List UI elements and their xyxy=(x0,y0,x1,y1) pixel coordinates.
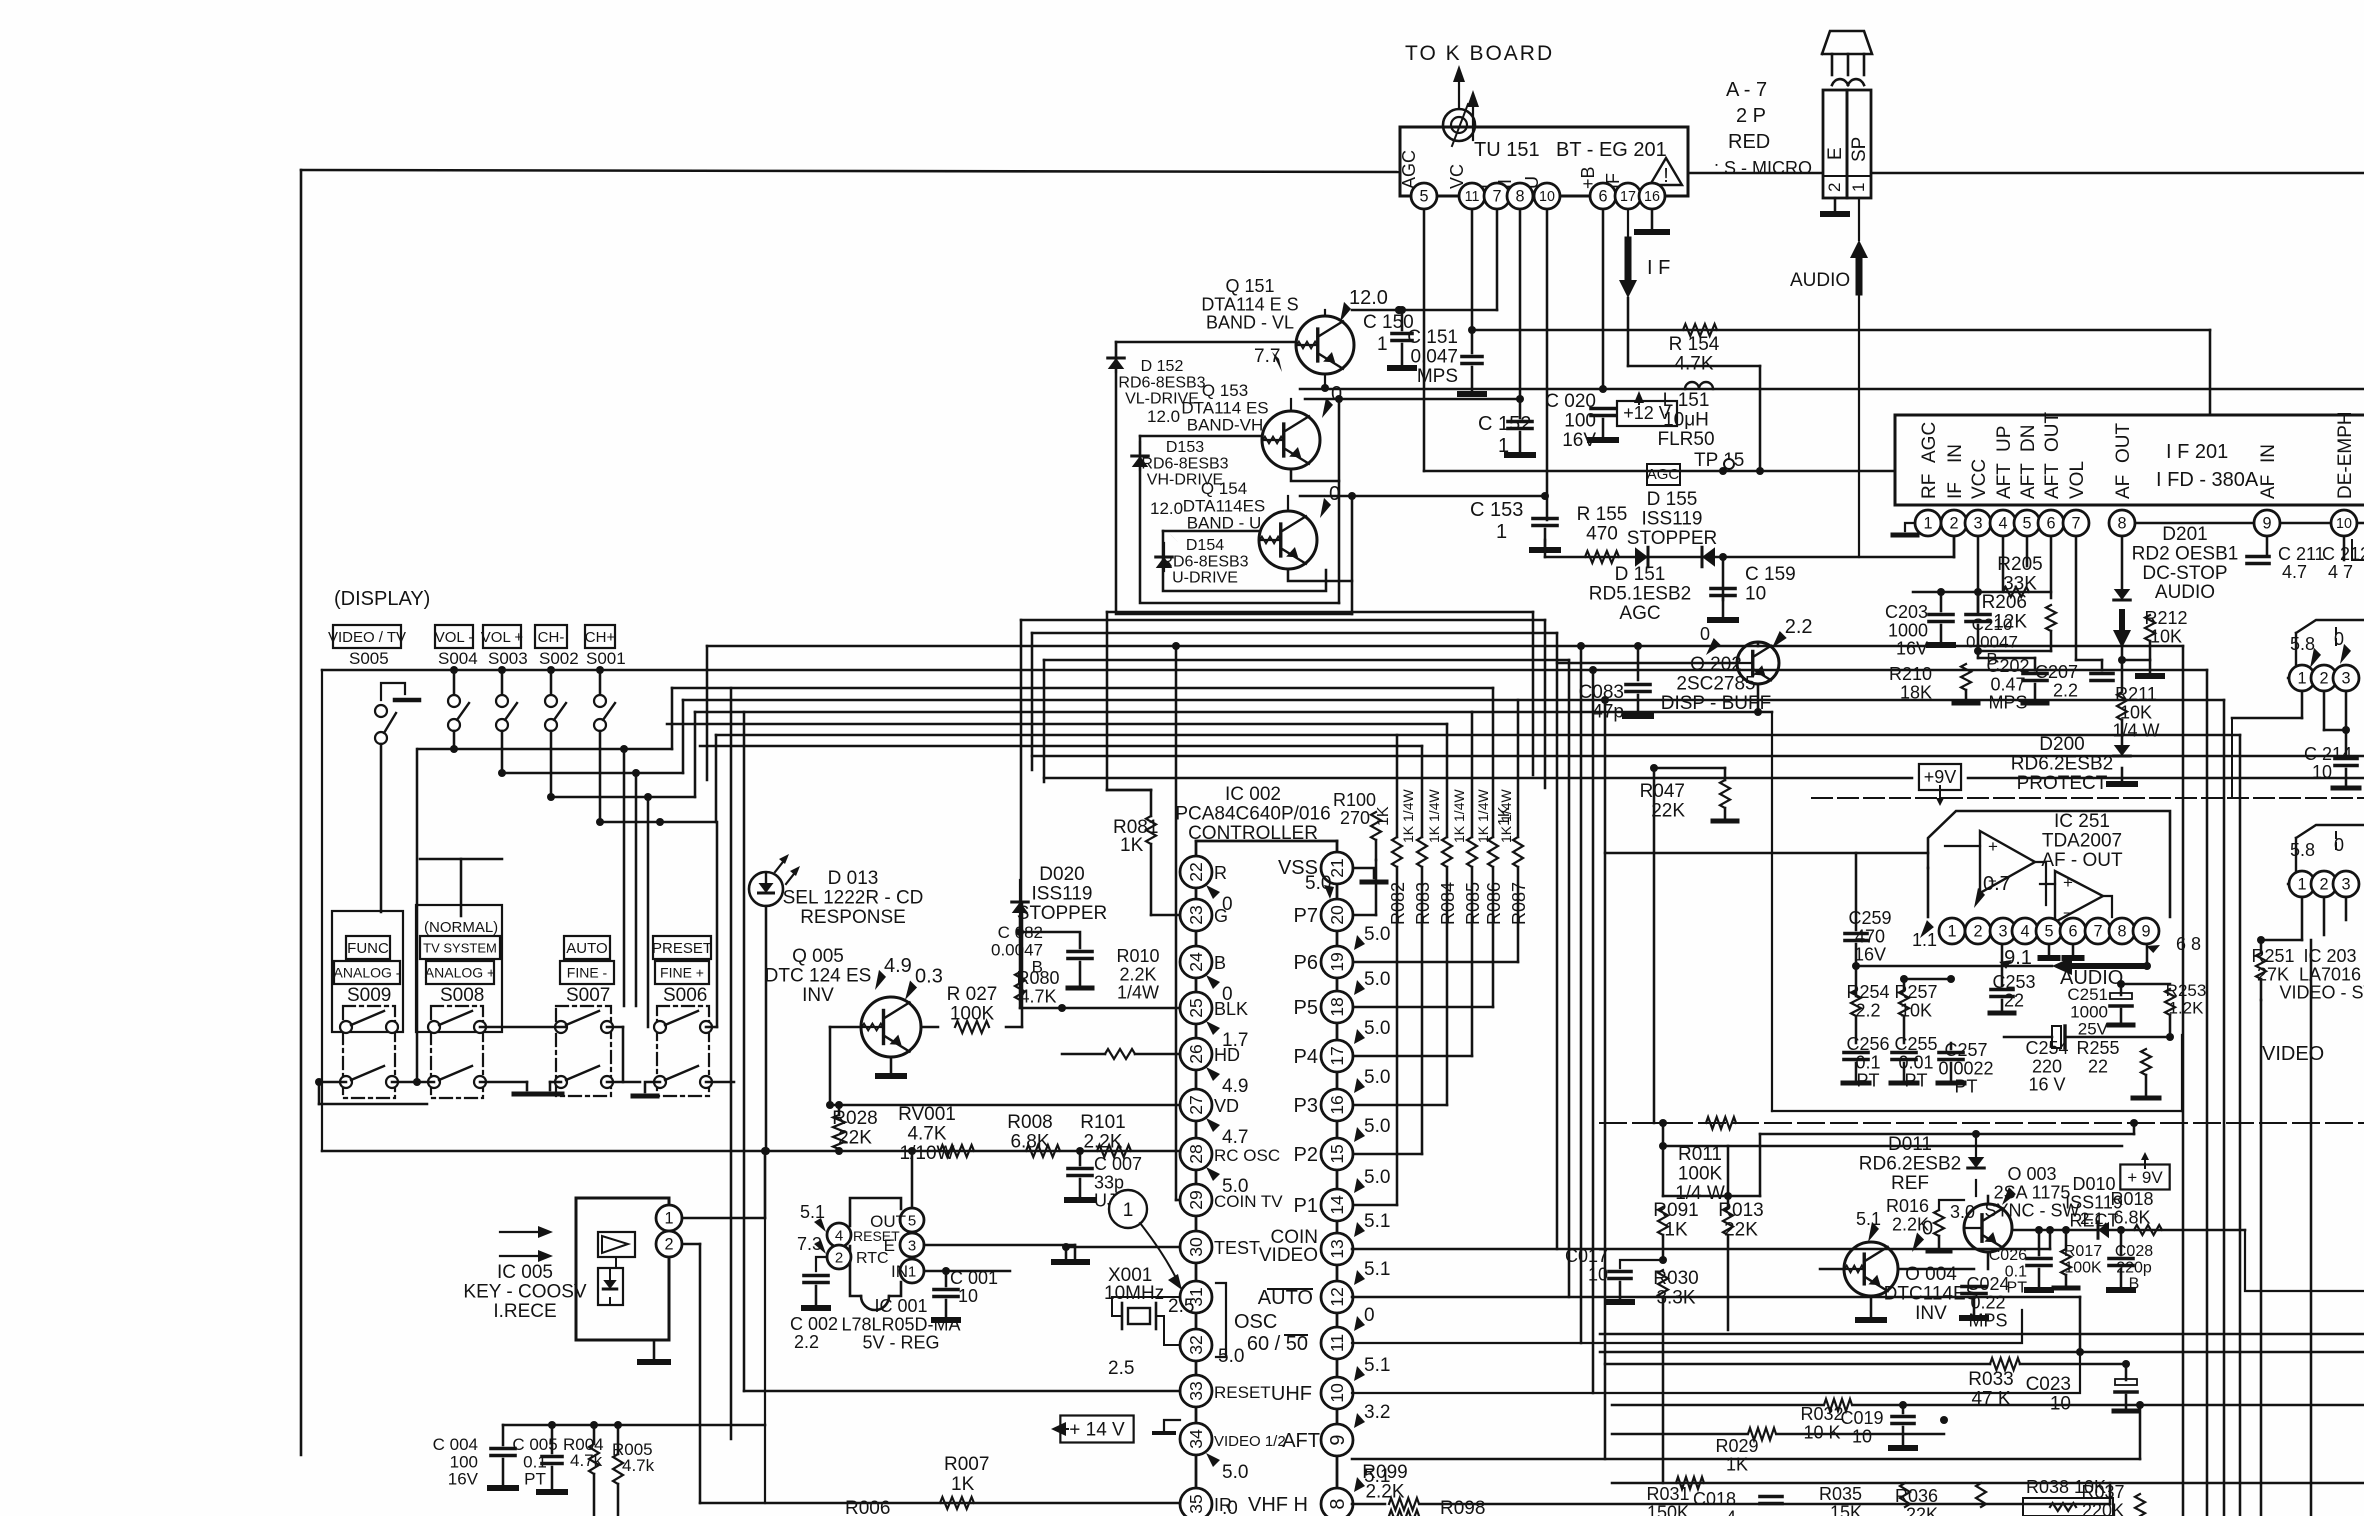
svg-text:4.7K: 4.7K xyxy=(1674,353,1713,374)
svg-text:S001: S001 xyxy=(586,649,626,668)
svg-text:0.7: 0.7 xyxy=(1983,873,2011,895)
svg-text:IC 002: IC 002 xyxy=(1225,784,1281,805)
svg-text:IF: IF xyxy=(1945,482,1966,499)
svg-text:100K: 100K xyxy=(950,1003,995,1024)
svg-text:STOPPER: STOPPER xyxy=(1627,528,1717,549)
svg-text:OUT: OUT xyxy=(2042,412,2063,453)
svg-text:P5: P5 xyxy=(1294,997,1318,1019)
svg-text:C 001: C 001 xyxy=(950,1268,998,1288)
svg-text:B: B xyxy=(1214,953,1226,973)
svg-text:34: 34 xyxy=(1186,1429,1206,1449)
svg-text:CH-: CH- xyxy=(538,629,565,646)
svg-text:TP 15: TP 15 xyxy=(1694,450,1744,471)
svg-text:5.8: 5.8 xyxy=(2290,840,2315,860)
svg-text:2.2K: 2.2K xyxy=(1119,964,1156,984)
svg-text:FLR50: FLR50 xyxy=(1657,429,1714,450)
svg-text:4.7k: 4.7k xyxy=(622,1456,655,1475)
svg-text:60 / 50: 60 / 50 xyxy=(1247,1333,1308,1355)
svg-text:HD: HD xyxy=(1214,1045,1240,1065)
svg-text:6: 6 xyxy=(2046,515,2055,533)
svg-text:1K 1/4W: 1K 1/4W xyxy=(1400,789,1416,843)
svg-text:10K: 10K xyxy=(2150,626,2182,646)
svg-text:0.0022: 0.0022 xyxy=(1938,1058,1993,1078)
svg-text:PRESET: PRESET xyxy=(652,940,712,957)
svg-text:18K: 18K xyxy=(1900,682,1932,702)
svg-text:29: 29 xyxy=(1186,1190,1206,1210)
svg-text:C 007: C 007 xyxy=(1094,1154,1142,1174)
svg-text:1: 1 xyxy=(908,1263,916,1280)
svg-text:18: 18 xyxy=(1327,997,1347,1017)
svg-text:1K: 1K xyxy=(951,1474,975,1495)
svg-text:AUTO: AUTO xyxy=(566,940,607,957)
svg-text:0: 0 xyxy=(1700,624,1710,644)
svg-text:AF - OUT: AF - OUT xyxy=(2041,850,2123,871)
svg-text:PCA84C640P/016: PCA84C640P/016 xyxy=(1175,803,1330,824)
svg-text:16V: 16V xyxy=(1896,639,1928,659)
svg-text:TO K BOARD: TO K BOARD xyxy=(1405,42,1554,65)
svg-text:100K: 100K xyxy=(1678,1163,1723,1184)
svg-text:TU 151: TU 151 xyxy=(1474,139,1540,161)
svg-text:22K: 22K xyxy=(838,1127,872,1148)
svg-text:R 154: R 154 xyxy=(1669,334,1720,355)
svg-text:IN: IN xyxy=(2258,444,2279,463)
svg-text:C 150: C 150 xyxy=(1363,312,1414,333)
svg-text:4.7: 4.7 xyxy=(2282,562,2307,582)
svg-text:DE-EMPH: DE-EMPH xyxy=(2335,411,2356,499)
svg-text:10μH: 10μH xyxy=(1663,409,1709,430)
svg-text:IC 001: IC 001 xyxy=(874,1296,927,1316)
svg-text:R 155: R 155 xyxy=(1577,504,1628,525)
svg-text:24: 24 xyxy=(1186,952,1206,972)
svg-text:33: 33 xyxy=(1186,1381,1206,1401)
svg-text:RV001: RV001 xyxy=(898,1104,956,1125)
svg-text:R255: R255 xyxy=(2076,1038,2119,1058)
svg-text:RF: RF xyxy=(1919,474,1940,499)
svg-text:C083: C083 xyxy=(1579,682,1624,703)
svg-text:1000: 1000 xyxy=(1888,620,1928,640)
svg-text:13: 13 xyxy=(1327,1239,1347,1259)
svg-text:C017: C017 xyxy=(1565,1246,1608,1266)
svg-text:R099: R099 xyxy=(1362,1462,1407,1483)
svg-text:PT: PT xyxy=(1904,1071,1927,1091)
svg-text:BLK: BLK xyxy=(1214,999,1248,1019)
svg-text:1: 1 xyxy=(1496,521,1507,543)
svg-text:16: 16 xyxy=(1644,189,1660,205)
svg-text:11: 11 xyxy=(1465,189,1480,205)
svg-text:30: 30 xyxy=(1186,1237,1206,1257)
svg-text:R017: R017 xyxy=(2064,1243,2102,1260)
svg-text:R035: R035 xyxy=(1819,1484,1862,1504)
svg-text:PT: PT xyxy=(2007,1280,2028,1297)
svg-text:MPS: MPS xyxy=(1417,366,1458,387)
svg-text:L 151: L 151 xyxy=(1663,390,1710,411)
svg-text:TEST: TEST xyxy=(1214,1238,1260,1258)
svg-text:R257: R257 xyxy=(1894,982,1937,1002)
svg-text:I FD - 380A: I FD - 380A xyxy=(2156,469,2259,491)
svg-text:5V - REG: 5V - REG xyxy=(862,1333,939,1353)
svg-text:AGC: AGC xyxy=(1399,150,1419,189)
svg-text:16: 16 xyxy=(1327,1095,1347,1115)
svg-text:S009: S009 xyxy=(347,985,391,1006)
svg-text:RD6.2ESB2: RD6.2ESB2 xyxy=(1859,1153,1961,1174)
svg-text:0.1: 0.1 xyxy=(1855,1052,1880,1072)
svg-text:IC 251: IC 251 xyxy=(2054,811,2110,832)
svg-text:AF: AF xyxy=(2258,475,2279,499)
svg-text:1: 1 xyxy=(2297,670,2306,688)
svg-text:MPS: MPS xyxy=(1988,693,2027,713)
svg-text:1: 1 xyxy=(1123,1200,1134,1221)
svg-text:C259: C259 xyxy=(1848,908,1891,928)
svg-text:7: 7 xyxy=(2093,923,2102,941)
svg-text:R033: R033 xyxy=(1968,1369,2013,1390)
svg-text:2.2: 2.2 xyxy=(794,1332,819,1352)
svg-text:VIDEO: VIDEO xyxy=(2262,1043,2324,1065)
svg-text:AFT: AFT xyxy=(2042,463,2063,499)
svg-text:AUDIO: AUDIO xyxy=(2155,582,2215,603)
svg-text:B: B xyxy=(2129,1276,2140,1293)
svg-text:.0: .0 xyxy=(1222,1498,1238,1516)
svg-text:D010: D010 xyxy=(2072,1174,2115,1194)
svg-text:C253: C253 xyxy=(1992,972,2035,992)
svg-text:5: 5 xyxy=(2022,515,2031,533)
svg-text:D020: D020 xyxy=(1039,864,1084,885)
svg-text:15: 15 xyxy=(1327,1144,1347,1164)
svg-text:AFT: AFT xyxy=(1282,1430,1320,1452)
svg-text:220p: 220p xyxy=(2116,1259,2152,1276)
svg-text:+ 14 V: + 14 V xyxy=(1069,1419,1125,1440)
svg-text:FINE -: FINE - xyxy=(567,965,608,981)
svg-text:CH+: CH+ xyxy=(585,629,616,646)
svg-text:AGC: AGC xyxy=(1619,603,1660,624)
svg-text:10: 10 xyxy=(2312,762,2332,782)
svg-text:R010: R010 xyxy=(1116,946,1159,966)
svg-text:VIDEO / TV: VIDEO / TV xyxy=(328,629,406,646)
svg-text:R251: R251 xyxy=(2251,946,2294,966)
svg-text:R018: R018 xyxy=(2110,1189,2153,1209)
svg-text:470: 470 xyxy=(1586,523,1618,544)
svg-text:S004: S004 xyxy=(438,649,478,668)
svg-text:D201: D201 xyxy=(2162,524,2207,545)
svg-text:11: 11 xyxy=(1327,1334,1347,1352)
svg-text:VD: VD xyxy=(1214,1096,1239,1116)
svg-text:VH-DRIVE: VH-DRIVE xyxy=(1147,472,1223,489)
svg-text:IN: IN xyxy=(1945,444,1966,463)
svg-text:C256: C256 xyxy=(1846,1034,1889,1054)
svg-text:D 151: D 151 xyxy=(1615,564,1666,585)
svg-text:12.0: 12.0 xyxy=(1349,287,1388,309)
svg-text:R036: R036 xyxy=(1895,1486,1938,1506)
svg-text:P3: P3 xyxy=(1294,1095,1318,1117)
svg-text:C 002: C 002 xyxy=(790,1314,838,1334)
svg-text:D153: D153 xyxy=(1166,439,1204,456)
svg-text:6.8K: 6.8K xyxy=(2113,1207,2150,1227)
svg-text:16V: 16V xyxy=(1854,945,1886,965)
svg-text:ISS119: ISS119 xyxy=(1032,883,1093,904)
svg-text:VOL +: VOL + xyxy=(481,629,524,646)
svg-text:10: 10 xyxy=(1852,1426,1872,1446)
svg-text:I F: I F xyxy=(1647,257,1670,279)
svg-text:1: 1 xyxy=(1923,515,1932,533)
svg-text:12.0: 12.0 xyxy=(1147,407,1180,426)
svg-text:AGC: AGC xyxy=(1647,466,1680,483)
svg-text:7: 7 xyxy=(1492,188,1501,206)
svg-text:5.0: 5.0 xyxy=(1222,1462,1248,1483)
svg-text:MPS: MPS xyxy=(1968,1311,2007,1331)
svg-text:E: E xyxy=(1825,147,1846,160)
svg-text:U-DRIVE: U-DRIVE xyxy=(1172,570,1238,587)
svg-text:9: 9 xyxy=(1327,1434,1349,1445)
svg-text:0.01: 0.01 xyxy=(1898,1052,1933,1072)
svg-text:1K: 1K xyxy=(1664,1219,1688,1240)
svg-text:STOPPER: STOPPER xyxy=(1017,903,1107,924)
svg-text:R098: R098 xyxy=(1440,1498,1485,1516)
svg-text:DN: DN xyxy=(2018,425,2039,452)
svg-text:9: 9 xyxy=(2141,923,2150,941)
svg-text:10K: 10K xyxy=(2120,702,2152,722)
svg-text:1: 1 xyxy=(2297,876,2306,894)
svg-text:5: 5 xyxy=(2044,923,2053,941)
svg-text:R253: R253 xyxy=(2166,981,2207,1000)
svg-text:+: + xyxy=(1988,837,1998,856)
svg-text:5.0: 5.0 xyxy=(1364,969,1390,990)
svg-text:C024: C024 xyxy=(1966,1274,2009,1294)
svg-text:VOL: VOL xyxy=(2067,461,2088,499)
svg-text:2.2: 2.2 xyxy=(2053,680,2078,700)
svg-text:2: 2 xyxy=(664,1236,673,1254)
svg-text:2: 2 xyxy=(1949,515,1958,533)
svg-text:0: 0 xyxy=(1922,1218,1933,1240)
svg-text:100K: 100K xyxy=(2064,1259,2102,1276)
svg-text:6: 6 xyxy=(2068,923,2077,941)
svg-text:IN: IN xyxy=(891,1262,908,1281)
svg-text:TDA2007: TDA2007 xyxy=(2042,830,2122,851)
svg-text:S007: S007 xyxy=(566,985,610,1006)
svg-text:27: 27 xyxy=(1186,1095,1206,1115)
svg-text:3: 3 xyxy=(908,1237,916,1254)
svg-text:22: 22 xyxy=(2088,1056,2108,1076)
svg-text:Q 151: Q 151 xyxy=(1225,276,1274,296)
svg-text:1: 1 xyxy=(1849,183,1868,192)
svg-text:C 082: C 082 xyxy=(998,923,1043,942)
svg-text:6 8: 6 8 xyxy=(2176,934,2201,954)
svg-text:0.0047: 0.0047 xyxy=(1966,632,2018,651)
svg-text:D011: D011 xyxy=(1888,1134,1932,1155)
svg-text:1/4 W: 1/4 W xyxy=(2112,721,2159,741)
svg-text:3.0: 3.0 xyxy=(1950,1202,1975,1222)
svg-text:0: 0 xyxy=(1364,1305,1375,1326)
svg-text:2: 2 xyxy=(1973,923,1982,941)
svg-text:4.9: 4.9 xyxy=(884,955,912,977)
svg-text:10: 10 xyxy=(1588,1264,1608,1284)
svg-text:RC OSC: RC OSC xyxy=(1214,1146,1280,1165)
svg-text:R254: R254 xyxy=(1846,982,1889,1002)
svg-text:9: 9 xyxy=(2262,515,2271,533)
svg-text:12.0: 12.0 xyxy=(1150,499,1183,518)
svg-text:R037: R037 xyxy=(2081,1482,2124,1502)
svg-text:6: 6 xyxy=(1598,188,1607,206)
svg-text:R006: R006 xyxy=(845,1498,890,1516)
svg-text:RTC: RTC xyxy=(856,1250,889,1267)
svg-text:3: 3 xyxy=(1998,923,2007,941)
svg-text:1: 1 xyxy=(1498,435,1509,457)
svg-text:4: 4 xyxy=(835,1227,843,1244)
svg-text:4: 4 xyxy=(1998,515,2007,533)
svg-text:0.047: 0.047 xyxy=(1410,346,1458,367)
svg-text:5: 5 xyxy=(1419,188,1428,206)
svg-text:: S - MICRO: : S - MICRO xyxy=(1714,158,1812,178)
svg-text:IC 005: IC 005 xyxy=(497,1262,553,1283)
svg-text:VL-DRIVE: VL-DRIVE xyxy=(1125,391,1199,408)
svg-text:PT: PT xyxy=(1856,1071,1879,1091)
svg-text:S003: S003 xyxy=(488,649,528,668)
svg-text:P7: P7 xyxy=(1294,905,1318,927)
svg-text:8: 8 xyxy=(1327,1498,1349,1509)
svg-text:R016: R016 xyxy=(1886,1196,1929,1216)
svg-text:AUTO: AUTO xyxy=(1258,1287,1313,1309)
svg-text:3.2: 3.2 xyxy=(1364,1402,1390,1423)
svg-text:5: 5 xyxy=(908,1212,916,1229)
svg-text:P4: P4 xyxy=(1294,1046,1318,1068)
svg-text:28: 28 xyxy=(1186,1144,1206,1164)
svg-text:VCC: VCC xyxy=(1969,459,1990,499)
svg-text:DTA114ES: DTA114ES xyxy=(1183,496,1266,515)
svg-text:1000: 1000 xyxy=(2070,1002,2108,1021)
svg-text:5.1: 5.1 xyxy=(1364,1259,1390,1280)
svg-text:R210: R210 xyxy=(1889,664,1932,684)
svg-text:2.2: 2.2 xyxy=(1785,616,1813,638)
svg-text:VIDEO - SW: VIDEO - SW xyxy=(2279,983,2364,1003)
svg-text:INV: INV xyxy=(802,985,834,1006)
svg-text:0.1: 0.1 xyxy=(2005,1263,2027,1280)
svg-text:0.22: 0.22 xyxy=(1970,1292,2005,1312)
svg-text:+9V: +9V xyxy=(1924,767,1957,787)
svg-text:D200: D200 xyxy=(2039,734,2084,755)
svg-text:2SC2785: 2SC2785 xyxy=(1676,673,1755,694)
svg-text:4 7: 4 7 xyxy=(2328,562,2353,582)
svg-text:2: 2 xyxy=(1825,183,1844,192)
svg-text:8: 8 xyxy=(2117,515,2126,533)
svg-text:3: 3 xyxy=(1973,515,1982,533)
svg-text:D 152: D 152 xyxy=(1141,358,1184,375)
svg-text:470: 470 xyxy=(1855,926,1885,946)
svg-text:10: 10 xyxy=(1745,583,1766,604)
svg-text:4.7K: 4.7K xyxy=(907,1123,946,1144)
svg-text:VIDEO: VIDEO xyxy=(1259,1245,1318,1266)
svg-text:REF: REF xyxy=(1891,1173,1929,1194)
svg-text:0.3: 0.3 xyxy=(915,966,943,988)
svg-text:ANALOG +: ANALOG + xyxy=(425,965,495,981)
svg-text:D154: D154 xyxy=(1186,537,1224,554)
svg-text:R091: R091 xyxy=(1653,1200,1698,1221)
svg-text:PT: PT xyxy=(524,1470,546,1489)
svg-text:INV: INV xyxy=(1915,1303,1947,1324)
svg-text:220K: 220K xyxy=(2082,1500,2124,1516)
svg-text:8: 8 xyxy=(1515,188,1524,206)
svg-text:1K: 1K xyxy=(1375,806,1392,826)
svg-text:100: 100 xyxy=(1564,410,1596,431)
svg-text:P2: P2 xyxy=(1294,1144,1318,1166)
svg-text:1K 1/4W: 1K 1/4W xyxy=(1475,789,1491,843)
svg-text:1K 1/4W: 1K 1/4W xyxy=(1498,789,1514,843)
svg-text:R205: R205 xyxy=(1997,554,2042,575)
svg-text:ISS119: ISS119 xyxy=(1642,508,1703,529)
svg-text:RD2 OESB1: RD2 OESB1 xyxy=(2132,543,2239,564)
svg-text:1: 1 xyxy=(664,1210,673,1228)
svg-text:20: 20 xyxy=(1327,905,1347,925)
svg-text:TV SYSTEM: TV SYSTEM xyxy=(423,940,497,955)
svg-text:R 027: R 027 xyxy=(947,984,998,1005)
svg-text:AFT: AFT xyxy=(2018,463,2039,499)
svg-text:DTA114 E S: DTA114 E S xyxy=(1201,294,1298,314)
svg-text:35: 35 xyxy=(1186,1494,1206,1514)
svg-text:4.7: 4.7 xyxy=(1222,1127,1248,1148)
svg-text:R013: R013 xyxy=(1718,1200,1763,1221)
svg-text:C018: C018 xyxy=(1693,1489,1736,1509)
svg-text:32: 32 xyxy=(1186,1335,1206,1355)
svg-text:33p: 33p xyxy=(1094,1172,1124,1192)
svg-text:23: 23 xyxy=(1186,905,1206,925)
svg-text:RESET: RESET xyxy=(1214,1383,1271,1402)
svg-text:270: 270 xyxy=(1340,808,1370,828)
svg-text:R032: R032 xyxy=(1800,1404,1843,1424)
svg-text:FUNC: FUNC xyxy=(347,940,389,957)
svg-text:SEL 1222R - CD: SEL 1222R - CD xyxy=(783,887,924,908)
svg-text:12: 12 xyxy=(1327,1287,1347,1307)
svg-text:10: 10 xyxy=(1327,1383,1347,1403)
svg-text:2 P: 2 P xyxy=(1736,105,1766,127)
svg-text:R206: R206 xyxy=(1982,592,2027,613)
svg-text:22K: 22K xyxy=(1651,800,1685,821)
svg-text:R211: R211 xyxy=(2115,684,2157,704)
svg-text:R008: R008 xyxy=(1007,1112,1052,1133)
svg-text:1K: 1K xyxy=(1726,1454,1748,1474)
svg-text:(NORMAL): (NORMAL) xyxy=(424,919,498,936)
svg-text:1: 1 xyxy=(1377,334,1388,355)
svg-text:R: R xyxy=(1214,863,1227,883)
svg-text:R212: R212 xyxy=(2144,608,2187,628)
svg-text:C207: C207 xyxy=(2035,662,2078,682)
svg-text:VHF H: VHF H xyxy=(1248,1494,1308,1516)
svg-text:R029: R029 xyxy=(1715,1436,1758,1456)
svg-text:OUT: OUT xyxy=(2113,423,2134,464)
svg-text:4: 4 xyxy=(1726,1507,1736,1516)
svg-text:LA7016: LA7016 xyxy=(2299,964,2361,984)
svg-text:I.RECE: I.RECE xyxy=(493,1301,556,1322)
svg-text:5.1: 5.1 xyxy=(1364,1355,1390,1376)
svg-text:2.2K: 2.2K xyxy=(1365,1481,1404,1502)
svg-text:P6: P6 xyxy=(1294,952,1318,974)
svg-text:S008: S008 xyxy=(440,985,484,1006)
svg-text:O 004: O 004 xyxy=(1905,1264,1957,1285)
svg-text:19: 19 xyxy=(1327,952,1347,972)
svg-text:10MHz: 10MHz xyxy=(1104,1283,1164,1304)
svg-text:R100: R100 xyxy=(1333,790,1376,810)
svg-text:S005: S005 xyxy=(349,649,389,668)
svg-text:OSC: OSC xyxy=(1234,1311,1277,1333)
svg-text:15K: 15K xyxy=(1830,1502,1862,1516)
svg-text:O 003: O 003 xyxy=(2007,1164,2056,1184)
svg-text:5.8: 5.8 xyxy=(2290,634,2315,654)
svg-text:4.7K: 4.7K xyxy=(1019,986,1056,1006)
svg-text:S006: S006 xyxy=(663,985,707,1006)
svg-text:R101: R101 xyxy=(1080,1112,1125,1133)
svg-text:1K 1/4W: 1K 1/4W xyxy=(1426,789,1442,843)
svg-text:!: ! xyxy=(1663,165,1669,187)
svg-text:2: 2 xyxy=(2319,876,2328,894)
svg-text:1K: 1K xyxy=(1120,835,1144,856)
svg-text:Q 153: Q 153 xyxy=(1202,381,1248,400)
svg-text:D 155: D 155 xyxy=(1647,489,1698,510)
